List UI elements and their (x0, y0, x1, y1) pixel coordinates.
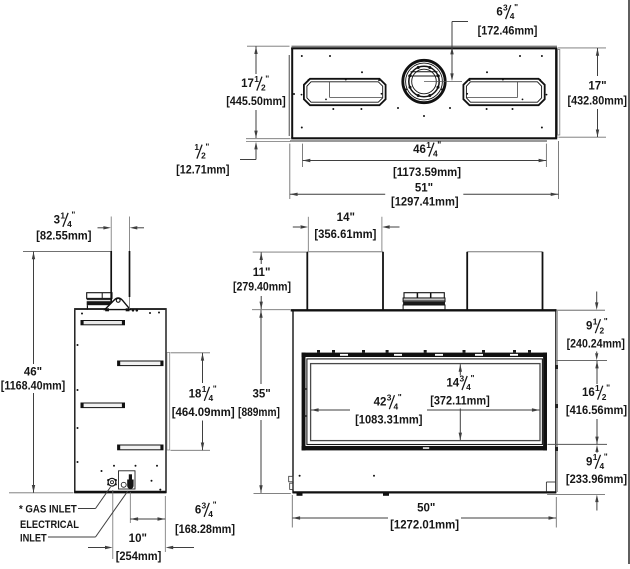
svg-text:4: 4 (466, 382, 471, 392)
svg-text:3: 3 (459, 373, 464, 383)
dim 14-3/4in line (459, 364, 462, 440)
dim 11in text (233, 267, 291, 294)
svg-text:10": 10" (129, 533, 147, 545)
svg-text:[233.96mm]: [233.96mm] (566, 474, 627, 486)
top view: right louver slot (463, 79, 544, 105)
front view: lower panel details (289, 475, 556, 496)
dim 9-1/2in text (567, 316, 625, 351)
page border right edge (628, 0, 630, 564)
front view: glass opening (311, 364, 540, 441)
svg-text:11": 11" (253, 267, 271, 279)
svg-text:4: 4 (67, 219, 72, 229)
svg-text:": " (213, 384, 217, 394)
dim 51in text (391, 182, 459, 208)
dim 17-1/2in text (226, 73, 286, 108)
dim 46in extension lines (9, 252, 111, 493)
svg-text:2: 2 (201, 151, 206, 161)
svg-text:4: 4 (393, 401, 398, 411)
svg-text:14: 14 (446, 378, 459, 390)
dim 3-1/4in text (36, 210, 91, 243)
side view: cabinet outline (74, 309, 166, 492)
dim 17in line (596, 48, 599, 137)
svg-text:50": 50" (417, 502, 435, 514)
dim 17in text (568, 80, 628, 107)
dim 50in extension lines (292, 495, 556, 528)
svg-text:[1297.41mm]: [1297.41mm] (391, 197, 459, 209)
front view: window frame vent dashes (340, 354, 518, 449)
dim 6-3/4in leader (450, 22, 468, 82)
svg-text:14": 14" (337, 212, 355, 224)
svg-text:[12.71mm]: [12.71mm] (176, 164, 229, 176)
svg-text:3: 3 (503, 3, 508, 13)
svg-text:4: 4 (433, 149, 438, 159)
top view: chassis outline (291, 46, 557, 138)
dim 10in text (116, 533, 162, 563)
svg-text:": " (514, 2, 518, 12)
dim 46in text (1, 367, 66, 393)
top view: screw dots (293, 55, 543, 129)
dim 9-1/4in text (566, 452, 627, 487)
top view: flue collar (403, 60, 445, 102)
svg-text:[172.46mm]: [172.46mm] (478, 25, 538, 37)
svg-text:": " (604, 316, 608, 326)
svg-text:[889mm]: [889mm] (238, 407, 280, 419)
side view: screw dots (77, 312, 162, 491)
svg-text:3: 3 (54, 214, 60, 226)
svg-text:18: 18 (189, 388, 202, 400)
side view: vent elbow block (87, 293, 112, 310)
top view: louver screw dots (301, 79, 548, 101)
svg-text:17: 17 (241, 78, 254, 90)
svg-text:[356.61mm]: [356.61mm] (314, 229, 376, 241)
dim 16-1/2in text (566, 383, 627, 418)
svg-text:[254mm]: [254mm] (116, 551, 162, 563)
dim 35in text (238, 388, 280, 419)
dim 35in extension lines (252, 310, 291, 494)
svg-text:[240.24mm]: [240.24mm] (567, 339, 625, 351)
dim 16-1/2in extension lines (548, 360, 608, 444)
svg-text:": " (213, 500, 217, 510)
side view: pivot bracket (105, 298, 138, 312)
dim 51in extension lines (290, 141, 559, 199)
svg-text:1: 1 (595, 383, 600, 393)
svg-text:17": 17" (588, 80, 606, 92)
svg-text:35": 35" (252, 388, 270, 400)
front view: vent cap (403, 293, 445, 310)
svg-text:[416.56mm]: [416.56mm] (566, 405, 627, 417)
svg-text:[1272.01mm]: [1272.01mm] (390, 520, 459, 532)
svg-text:46: 46 (413, 144, 426, 156)
front view: firebox outline (291, 309, 558, 493)
dim 11in extension line (253, 251, 307, 253)
dim 18-1/4in line (201, 353, 204, 451)
dim 46in line (32, 252, 35, 493)
dim 11in line (260, 252, 263, 309)
svg-text:46": 46" (24, 367, 42, 379)
svg-text:[432.80mm]: [432.80mm] (568, 95, 628, 107)
svg-text:9: 9 (586, 321, 592, 333)
svg-text:": " (604, 452, 608, 462)
svg-text:INLET: INLET (20, 532, 47, 544)
dim 14in arrows (293, 225, 400, 228)
dim 1/2in text (176, 141, 229, 176)
front view: right edge clips (555, 365, 558, 451)
svg-text:[464.09mm]: [464.09mm] (172, 407, 235, 419)
svg-text:ELECTRICAL: ELECTRICAL (20, 519, 79, 531)
dim 51in line (290, 193, 559, 196)
dim 6-3/4in text (478, 2, 538, 38)
dim 1/2in leader (240, 142, 258, 160)
svg-text:1: 1 (593, 317, 598, 327)
dim 9-1/4in extension line (547, 494, 605, 496)
dim 6-3/4in inlet text (175, 500, 235, 536)
svg-text:[168.28mm]: [168.28mm] (175, 524, 235, 536)
svg-text:6: 6 (195, 504, 201, 516)
svg-text:[82.55mm]: [82.55mm] (36, 231, 91, 243)
svg-text:4: 4 (599, 461, 604, 471)
dim 46-1/4in line (303, 159, 547, 162)
dim 14in extension lines (308, 217, 382, 251)
svg-text:6: 6 (496, 7, 502, 19)
svg-text:": " (265, 73, 269, 83)
svg-text:[445.50mm]: [445.50mm] (226, 96, 286, 108)
svg-text:4: 4 (208, 393, 213, 403)
svg-text:3: 3 (202, 500, 207, 510)
side view: small knockout circle (121, 482, 126, 487)
svg-text:[1173.59mm]: [1173.59mm] (393, 167, 461, 179)
svg-text:[279.40mm]: [279.40mm] (233, 282, 291, 294)
svg-text:": " (471, 373, 475, 383)
dim 14in text (314, 212, 376, 241)
side view: glass edge strip (167, 353, 170, 451)
svg-text:4: 4 (510, 11, 515, 21)
svg-text:1: 1 (60, 210, 65, 220)
dim 14-3/4in text (430, 373, 490, 408)
dim 3-1/4in arrows (98, 226, 145, 229)
dim 16-1/2in line (595, 361, 598, 444)
svg-text:3: 3 (387, 393, 392, 403)
side view: shelf 1 (81, 321, 125, 325)
dim 17-1/2in line (254, 46, 257, 138)
svg-text:": " (398, 392, 402, 402)
svg-text:[1083.31mm]: [1083.31mm] (355, 414, 423, 426)
side view: gas valve (107, 478, 117, 486)
label electrical inlet (20, 519, 79, 545)
top view: left lip flange (288, 55, 290, 136)
svg-text:4: 4 (208, 509, 213, 519)
svg-text:2: 2 (599, 325, 604, 335)
svg-text:": " (437, 139, 441, 149)
svg-text:51": 51" (415, 182, 433, 194)
dim 50in text (390, 502, 459, 531)
svg-text:1: 1 (593, 452, 598, 462)
svg-text:42: 42 (374, 397, 387, 409)
dim 3-1/4in extension lines (111, 217, 129, 310)
dim 9-1/4in arrows (595, 445, 598, 511)
side view: junction box (119, 471, 136, 489)
leader electrical inlet (48, 491, 128, 537)
dim 50in line (293, 516, 557, 519)
svg-text:[372.11mm]: [372.11mm] (430, 396, 490, 408)
dim 9-1/2in arrows (595, 292, 598, 361)
front view: window frame (302, 353, 547, 451)
svg-text:": " (205, 141, 209, 151)
dim 46-1/4in text (393, 139, 461, 179)
svg-text:1: 1 (426, 140, 431, 150)
top view: left louver slot (304, 79, 386, 105)
dim 10in arrows (88, 546, 194, 549)
top view: right lip flange (558, 50, 560, 136)
dim 6-3/4in inlet line (130, 517, 165, 520)
svg-text:2: 2 (602, 392, 607, 402)
dim 18-1/4in text (172, 384, 235, 419)
svg-text:1: 1 (194, 142, 199, 152)
dim 1/2in lip extension lines (246, 139, 291, 142)
dim 17in extension lines (558, 48, 606, 137)
svg-text:": " (606, 383, 610, 393)
svg-text:16: 16 (582, 387, 595, 399)
front view: right standoff (467, 252, 542, 310)
side view: shelf 2 (118, 361, 163, 366)
svg-text:2: 2 (261, 83, 266, 93)
side view: electrical connector (127, 474, 133, 489)
dim 17-1/2in extension line (247, 45, 290, 47)
leader gas inlet (78, 487, 111, 509)
top view: flue centerline (424, 81, 462, 83)
front view: window frame screws (317, 350, 531, 353)
dim 18-1/4in extension lines (171, 353, 211, 451)
svg-text:1: 1 (202, 384, 207, 394)
dim 42-3/4in line (311, 408, 540, 411)
svg-text:1: 1 (254, 74, 259, 84)
dim 9-1/2in extension line (557, 309, 605, 311)
dim 10in extension line (112, 490, 114, 559)
side view: vent pipe (111, 251, 129, 309)
top view: bottom lip line (290, 140, 547, 142)
dim 42-3/4in text (355, 392, 423, 426)
svg-text:[1168.40mm]: [1168.40mm] (1, 381, 66, 393)
svg-text:9: 9 (586, 456, 592, 468)
front view: left standoff (307, 252, 383, 310)
svg-text:": " (71, 210, 75, 220)
dim 35in line (259, 310, 262, 493)
side view: shelf 3 (81, 403, 125, 408)
dim 6-3/4in inlet extension lines (130, 492, 165, 552)
svg-text:* GAS INLET: * GAS INLET (19, 503, 77, 515)
dim 46-1/4in extension lines (303, 144, 547, 167)
side view: shelf 4 (118, 445, 163, 450)
